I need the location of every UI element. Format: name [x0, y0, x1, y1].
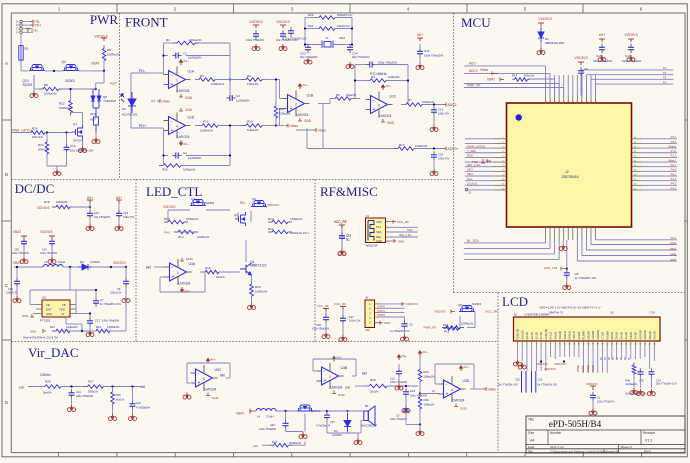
ground flag below U1A	[179, 94, 183, 97]
capacitor C29 left	[16, 267, 18, 279]
svg-text:P2: P2	[663, 76, 667, 80]
svg-text:C13: C13	[438, 108, 444, 112]
svg-text:VBAT: VBAT	[236, 412, 244, 416]
svg-text:C10: C10	[94, 211, 100, 215]
svg-text:3: 3	[378, 104, 380, 108]
svg-text:CE: CE	[46, 303, 50, 307]
junction dots under LCD	[540, 360, 542, 362]
svg-text:Vbe=]=R1/R2r=1.21=3.3V: Vbe=]=R1/R2r=1.21=3.3V	[23, 336, 58, 340]
resistor R25 bottom loop	[159, 165, 163, 167]
svg-text:GND: GND	[384, 321, 390, 325]
resistor R28	[41, 386, 45, 388]
svg-text:D3: D3	[80, 260, 84, 264]
svg-text:pa0: pa0	[253, 444, 258, 448]
RF module U7 body	[366, 218, 386, 243]
capacitor C21	[71, 389, 73, 393]
svg-text:C16: C16	[123, 211, 129, 215]
transistor Q10 PMOS	[29, 65, 45, 71]
svg-text:100a Y5Va20%: 100a Y5Va20%	[622, 59, 642, 63]
svg-text:Vbias: Vbias	[480, 68, 488, 72]
svg-text:F0: F0	[25, 47, 29, 51]
svg-text:VDD3V3: VDD3V3	[406, 302, 418, 306]
svg-text:EXT: EXT	[46, 308, 52, 312]
svg-text:100kHz: 100kHz	[40, 373, 51, 377]
svg-text:SDL3B: SDL3B	[558, 331, 562, 339]
svg-text:C21: C21	[76, 390, 81, 394]
svg-text:L1: L1	[44, 260, 48, 264]
svg-text:T_4RF: T_4RF	[467, 149, 476, 153]
svg-text:2ka1%: 2ka1%	[116, 398, 125, 402]
RF module antenna meander	[368, 221, 374, 241]
sheet zone column separators bottom	[58, 453, 60, 457]
svg-text:+: +	[324, 379, 327, 385]
capacitor C23	[405, 388, 407, 392]
svg-text:R2: R2	[247, 74, 251, 78]
svg-text:R25: R25	[162, 168, 168, 172]
svg-text:C12: C12	[390, 377, 395, 381]
ground under C12 RF	[341, 241, 343, 250]
svg-text:100a Y5V: 100a Y5V	[438, 112, 450, 116]
svg-text:1003aa5%: 1003aa5%	[625, 383, 638, 386]
LCD module pin stubs	[517, 341, 519, 347]
svg-text:C16: C16	[438, 153, 444, 157]
section divider PWR-FRONT bottom horizontal	[12, 179, 454, 181]
ground under C29	[16, 286, 18, 296]
svg-text:10ka1%: 10ka1%	[88, 390, 99, 394]
svg-text:R18: R18	[44, 200, 50, 204]
wire Q10 to Q4	[45, 70, 63, 72]
regulator U5 PT1301	[42, 300, 70, 317]
svg-text:Q2: Q2	[252, 197, 256, 201]
power flag VDD3V3 top of MCU section	[538, 23, 544, 26]
svg-text:ADC2: ADC2	[448, 103, 457, 107]
ground under C28 RF	[325, 322, 327, 332]
push button OK1 KEY	[93, 101, 99, 132]
svg-text:C17: C17	[95, 319, 101, 323]
feedback wire R1 C2 loop	[163, 43, 165, 75]
MCU bottom bus wires going left	[464, 242, 546, 244]
svg-text:A5+: A5+	[401, 354, 407, 358]
RF module SCL wire	[391, 226, 419, 228]
svg-text:A5+: A5+	[417, 33, 423, 37]
svg-text:VBAT: VBAT	[13, 261, 21, 265]
svg-text:100a 6.3V: 100a 6.3V	[110, 292, 122, 295]
wire node to U3D inputs	[420, 393, 440, 395]
ground flag below U1B	[298, 118, 302, 121]
svg-text:A1-2B: A1-2B	[539, 332, 543, 339]
svg-text:4.7a328a1%: 4.7a328a1%	[316, 425, 331, 428]
resistor R14 feedback bottom	[92, 330, 96, 332]
LCD module body	[514, 317, 661, 341]
wire R28 to node	[28, 386, 45, 388]
svg-text:10uH: 10uH	[58, 260, 65, 264]
svg-text:Q5: Q5	[458, 303, 462, 307]
resistor R16 row	[164, 221, 168, 223]
svg-text:RD-: RD-	[240, 201, 246, 205]
svg-text:2ka1%: 2ka1%	[43, 391, 52, 395]
MCU top pins	[545, 96, 547, 104]
svg-text:100Ra2%: 100Ra2%	[107, 53, 121, 57]
ground flag left of U3C	[183, 393, 191, 400]
svg-text:A4: A4	[530, 439, 534, 443]
svg-text:PWM0: PWM0	[578, 364, 580, 372]
svg-text:U3B: U3B	[341, 366, 348, 370]
capacitor C17	[89, 317, 91, 321]
resistor R41	[270, 444, 274, 446]
svg-text:100a Y5Va20%: 100a Y5Va20%	[12, 252, 30, 255]
svg-text:VDD3V3: VDD3V3	[624, 33, 637, 37]
svg-text:100a Y5Va20%: 100a Y5Va20%	[259, 428, 277, 431]
svg-text:LMV324: LMV324	[453, 399, 465, 403]
svg-text:P5UBB: P5UBB	[605, 331, 609, 340]
svg-text:VDD3V3: VDD3V3	[267, 203, 279, 207]
ground under C13	[433, 115, 435, 126]
MCU top pin wires	[545, 75, 547, 96]
svg-text:LMV324: LMV324	[179, 282, 191, 286]
svg-text:A2-2B: A2-2B	[534, 332, 538, 339]
wire VBAT node down to KEY row	[103, 71, 105, 83]
svg-text:2: 2	[329, 375, 331, 379]
svg-text:R11: R11	[268, 227, 274, 231]
power flag A5+ with cap C10	[87, 200, 93, 203]
wires around U5	[69, 267, 71, 290]
svg-text:100ka1%: 100ka1%	[388, 75, 400, 79]
LED_CTL wires upper	[167, 210, 169, 222]
op-amp U3B left	[322, 367, 339, 385]
connector J6 row2 wire TORX0	[380, 307, 405, 309]
ground under C11	[419, 56, 421, 63]
svg-text:A4-2B: A4-2B	[525, 332, 529, 339]
capacitor C7 mid	[95, 297, 97, 301]
ground under Q7	[82, 139, 84, 146]
svg-text:C14: C14	[70, 144, 76, 148]
svg-text:AV+: AV+	[422, 350, 428, 354]
svg-text:20k=1%: 20k=1%	[38, 148, 49, 152]
svg-text:R32: R32	[38, 143, 44, 147]
svg-text:A5+: A5+	[599, 33, 605, 37]
capacitor C30	[639, 368, 641, 372]
svg-text:C33: C33	[538, 378, 543, 382]
resistor R1A row	[268, 221, 272, 223]
svg-text:P1.2: P1.2	[671, 149, 677, 153]
svg-text:U1D: U1D	[188, 116, 195, 120]
resistor R10 output U1D	[198, 125, 202, 127]
wire L1 to D3	[63, 266, 78, 268]
svg-text:W5Q24A: W5Q24A	[366, 244, 378, 248]
ground flag below U3C	[206, 393, 210, 396]
capacitor C31	[650, 368, 652, 372]
svg-text:5-2AB: 5-2AB	[629, 332, 633, 339]
feedback wire U3C	[187, 382, 192, 384]
op-amp U1B	[288, 95, 305, 113]
resistor R5 between stages	[331, 98, 335, 100]
svg-text:J4C: J4C	[365, 328, 370, 332]
wire Q4 to VBAT node	[79, 70, 104, 72]
svg-text:ZB27IB416: ZB27IB416	[562, 175, 579, 179]
ground under C10	[89, 218, 91, 224]
svg-text:C3UAB: C3UAB	[591, 331, 595, 340]
capacitor C22	[132, 400, 134, 404]
svg-text:P0.4: P0.4	[671, 135, 677, 139]
svg-text:C7: C7	[100, 298, 104, 302]
capacitor C5 DAC	[405, 405, 407, 409]
svg-text:C24: C24	[42, 248, 47, 252]
svg-text:100Ra1%: 100Ra1%	[200, 129, 214, 133]
svg-text:TXD: TXD	[472, 160, 478, 164]
resistor R27	[84, 386, 88, 388]
wire R41 to Q8 gate	[262, 444, 272, 446]
svg-text:R11: R11	[50, 325, 55, 329]
capacitor C28 bottom RF	[325, 312, 327, 316]
svg-text:SDA: SDA	[376, 230, 382, 234]
svg-text:C30: C30	[639, 379, 644, 383]
svg-text:3: 3	[203, 377, 205, 381]
ground under C49 and Q8	[285, 428, 287, 432]
svg-text:AGNDB: AGNDB	[638, 330, 642, 339]
power flag VDD3V3 with capacitor C19	[628, 39, 634, 42]
svg-text:pa0: pa0	[345, 386, 351, 390]
svg-text:P4.6: P4.6	[671, 168, 677, 172]
ground under second cap	[118, 218, 120, 224]
svg-text:VCC_RF: VCC_RF	[334, 220, 347, 224]
svg-text:Q4: Q4	[62, 60, 66, 64]
svg-text:U1A: U1A	[188, 70, 195, 74]
dual diode Q6	[91, 89, 101, 101]
svg-text:FB: FB	[62, 303, 66, 307]
svg-text:IRQ_2.4G: IRQ_2.4G	[399, 233, 412, 237]
svg-text:VDD=1.65-3.3V VBAT=3.3+-2V VB: VDD=1.65-3.3V VBAT=3.3+-2V VBAT=7+-1 V	[539, 306, 600, 310]
connector pin J1 bottom left of MCU	[465, 188, 468, 191]
svg-text:LMV324: LMV324	[331, 386, 343, 390]
svg-text:10ka1%: 10ka1%	[346, 93, 357, 97]
transistor Q7 NMOS	[72, 125, 83, 139]
svg-text:+: +	[172, 275, 175, 281]
svg-text:BL_STA: BL_STA	[467, 239, 480, 243]
svg-text:3C: 3C	[346, 238, 350, 242]
svg-text:GND: GND	[31, 29, 39, 33]
svg-text:Revision: Revision	[643, 431, 655, 435]
svg-text:J1: J1	[468, 191, 471, 195]
svg-text:U1C: U1C	[390, 95, 397, 99]
svg-text:AAC3302LF: AAC3302LF	[361, 424, 378, 428]
svg-text:GND: GND	[22, 314, 28, 318]
svg-text:PD+: PD+	[35, 23, 42, 27]
RF module pin stubs	[386, 221, 391, 223]
svg-text:100Ra2%: 100Ra2%	[461, 322, 474, 326]
svg-text:VDD3V3: VDD3V3	[554, 362, 566, 366]
svg-text:GND: GND	[185, 96, 193, 100]
svg-text:AGRDB: AGRDB	[596, 330, 600, 339]
crystal Y1	[324, 42, 331, 48]
svg-text:SCL: SCL	[376, 225, 382, 229]
svg-text:VDD3V3: VDD3V3	[434, 310, 446, 314]
svg-text:10Ra2%=a=: 10Ra2%=a=	[337, 13, 353, 17]
resistor R2 upper to U1B	[242, 79, 246, 81]
svg-text:U1: U1	[366, 214, 370, 218]
svg-text:GNDLAB: GNDLAB	[516, 329, 520, 340]
svg-text:VDD3V3: VDD3V3	[40, 230, 53, 234]
svg-text:pad3: pad3	[670, 257, 676, 261]
svg-text:pad0: pad0	[670, 241, 676, 245]
svg-text:VDD3V3: VDD3V3	[276, 20, 289, 24]
svg-text:28-UB: 28-UB	[610, 332, 614, 340]
ground under C34	[346, 62, 354, 69]
feedback wire U3A	[160, 276, 165, 278]
svg-text:+: +	[290, 106, 293, 112]
svg-text:LMV324: LMV324	[205, 388, 217, 392]
infrared diode D2	[121, 92, 136, 113]
svg-text:R17: R17	[399, 143, 405, 147]
svg-text:100a Y5Va20%: 100a Y5Va20%	[593, 59, 613, 63]
ground under C16	[433, 160, 435, 170]
svg-text:C5: C5	[396, 414, 400, 418]
svg-text:P4.6: P4.6	[164, 231, 171, 235]
connector J6 row5 GND flag	[375, 322, 381, 324]
power arrow AV+ above U1B	[299, 84, 302, 89]
wire U1A output to right	[215, 79, 246, 81]
svg-text:Title: Title	[528, 418, 534, 422]
svg-text:R49: R49	[625, 379, 630, 383]
capacitor C07 speaker right	[313, 410, 327, 412]
svg-text:+: +	[171, 128, 174, 134]
svg-text:100Ra1%: 100Ra1%	[59, 106, 73, 110]
ground under R16	[251, 296, 253, 303]
svg-text:29-UB: 29-UB	[615, 332, 619, 340]
svg-text:R24: R24	[32, 127, 38, 131]
svg-text:R14: R14	[96, 325, 102, 329]
op-amp U3D	[444, 380, 461, 398]
connector J6 row3 wire TORX1	[380, 312, 405, 314]
svg-text:PWR_LATCH: PWR_LATCH	[12, 129, 32, 133]
svg-text:10a Y5Va20%: 10a Y5Va20%	[94, 215, 111, 219]
ground under C20	[23, 246, 25, 257]
svg-text:KEY: KEY	[110, 82, 118, 86]
resistor R7 to ADC2	[402, 104, 406, 106]
svg-text:U3C: U3C	[215, 368, 222, 372]
wire R20 node to U1B input lower	[276, 125, 280, 127]
svg-text:2ka1%: 2ka1%	[370, 390, 379, 394]
svg-text:Q7: Q7	[73, 122, 77, 126]
capacitor C4 bottom loop	[172, 155, 176, 157]
op-amp U3A	[170, 263, 187, 281]
RF module GND flag	[391, 240, 395, 242]
svg-text:P1: P1	[663, 71, 667, 75]
svg-text:C22: C22	[136, 401, 141, 405]
op-amp U1C	[371, 96, 388, 114]
svg-text:0a YTVa20% 10V: 0a YTVa20% 10V	[498, 384, 518, 387]
svg-text:R26: R26	[308, 13, 314, 17]
wire fuse to Q10	[20, 60, 22, 71]
svg-text:U5: U5	[42, 296, 46, 300]
MCU bottom bus wires going right	[596, 239, 677, 241]
transistor Q1 PMOS	[190, 200, 206, 206]
svg-text:100Ra1%: 100Ra1%	[197, 235, 210, 239]
svg-text:VBAT: VBAT	[91, 62, 100, 66]
resistor R1 feedback	[173, 42, 177, 44]
svg-text:VDD3V3: VDD3V3	[37, 206, 50, 210]
svg-text:C23: C23	[410, 389, 415, 393]
svg-text:LMV324: LMV324	[178, 89, 190, 93]
ground under OK1	[92, 137, 100, 144]
resistor R10 under Q5	[442, 327, 446, 329]
svg-text:GND: GND	[460, 407, 468, 411]
svg-text:PWR_RF: PWR_RF	[424, 325, 437, 329]
svg-text:C9: C9	[584, 67, 588, 71]
ground flags under first LCD pins	[514, 360, 522, 367]
svg-text:SI2301: SI2301	[205, 201, 215, 205]
svg-text:Vbias: Vbias	[162, 99, 171, 103]
svg-text:10k1%=a=: 10k1%=a=	[337, 24, 351, 28]
resistor R4	[366, 80, 370, 82]
svg-text:MMBT2222: MMBT2222	[250, 264, 267, 268]
svg-text:22p Y5Va20%: 22p Y5Va20%	[352, 55, 370, 59]
svg-text:GND: GND	[387, 121, 395, 125]
section divider FRONT/MCU vertical	[453, 13, 455, 293]
svg-text:+: +	[171, 82, 174, 88]
svg-text:100a Y5V: 100a Y5V	[438, 157, 450, 161]
svg-text:D1: D1	[545, 37, 549, 41]
svg-text:108a Y5V: 108a Y5V	[123, 215, 135, 219]
svg-text:100p Y5Va20%: 100p Y5Va20%	[378, 61, 398, 65]
svg-text:100a Y5Va20%: 100a Y5Va20%	[424, 54, 444, 58]
resistor R20 lower	[242, 125, 246, 127]
svg-text:LX: LX	[61, 312, 65, 316]
svg-text:FRONT: FRONT	[125, 15, 168, 30]
svg-text:R1: R1	[166, 38, 170, 42]
svg-text:1a328a5%: 1a328a5%	[236, 99, 250, 103]
svg-text:LY50475B-12806#: LY50475B-12806#	[524, 313, 549, 317]
svg-text:R22: R22	[59, 102, 65, 106]
MCU IC U2 body	[507, 103, 632, 227]
svg-text:S0LB2: S0LB2	[553, 331, 557, 339]
ground under C12 RF	[341, 241, 343, 250]
wire PWR_LATCH row	[12, 132, 31, 134]
capacitor C14	[66, 144, 68, 148]
svg-text:GND: GND	[185, 108, 193, 112]
op-amp U3C	[196, 369, 213, 387]
svg-text:LMV324: LMV324	[297, 113, 309, 117]
svg-text:C32: C32	[515, 378, 520, 382]
svg-text:R6: R6	[107, 48, 111, 52]
svg-text:E3UAB: E3UAB	[586, 331, 590, 340]
title block column lines	[547, 430, 549, 445]
resistor R26 vertical DAC	[419, 367, 421, 370]
ground under Q10	[33, 75, 35, 91]
resistor R24	[27, 132, 31, 134]
feedback wires bottom	[70, 330, 96, 332]
svg-text:AV+: AV+	[385, 84, 391, 88]
svg-text:J2: J2	[565, 170, 569, 174]
svg-text:MCU: MCU	[461, 15, 491, 30]
svg-text:10ka1%: 10ka1%	[524, 73, 535, 77]
svg-text:GND: GND	[212, 396, 220, 400]
svg-text:L4: L4	[257, 415, 261, 419]
svg-text:R1A: R1A	[268, 217, 274, 221]
svg-text:U3A: U3A	[189, 262, 196, 266]
svg-text:C07: C07	[330, 420, 335, 424]
svg-text:R29: R29	[370, 378, 376, 382]
svg-text:File: File	[528, 449, 533, 453]
svg-text:2: 2	[295, 103, 297, 107]
resistor R30 vertical	[112, 389, 114, 392]
svg-text:100Ra1%: 100Ra1%	[211, 82, 225, 86]
svg-text:R12: R12	[178, 235, 184, 239]
ground flag above U3A	[180, 258, 184, 261]
svg-text:140ka1%: 140ka1%	[66, 325, 78, 329]
diode D4 speaker	[344, 413, 351, 431]
svg-text:L7-UB: L7-UB	[601, 332, 605, 340]
svg-text:VCC_RF: VCC_RF	[334, 302, 346, 306]
